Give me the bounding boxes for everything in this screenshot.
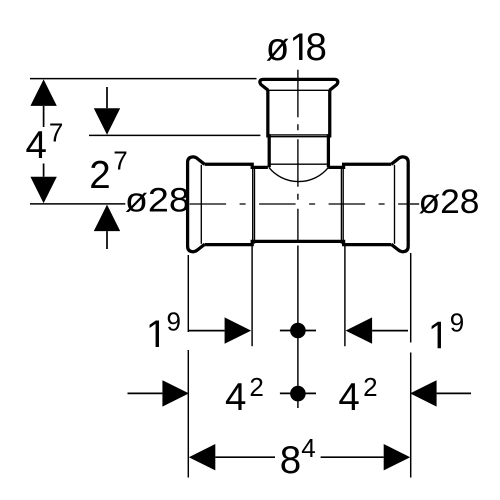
- svg-text:ø28: ø28: [125, 182, 190, 220]
- svg-text:ø: ø: [266, 26, 290, 69]
- dim 1.9 right tail: [372, 330, 408, 332]
- center reference dot 1: [290, 323, 306, 339]
- extension line bottom left-inner (socket end): [251, 246, 253, 346]
- branch socket end double line: [269, 135, 329, 137]
- svg-text:4: 4: [338, 376, 359, 419]
- vertical centerline (dash-dot): [297, 70, 299, 242]
- right socket end double line: [341, 168, 343, 244]
- left socket top outline with step: [205, 164, 268, 167]
- main pipe surface line seen through branch opening: [268, 163, 330, 165]
- dim 4.2 left tail: [128, 392, 163, 394]
- left socket end double line: [253, 168, 255, 244]
- dim 2.7 arrow tails: [106, 87, 108, 249]
- svg-text:7: 7: [49, 118, 63, 148]
- left socket bottom outline with step: [205, 241, 298, 244]
- dim 8.4 left tail: [215, 456, 275, 458]
- svg-text:ø28: ø28: [419, 183, 480, 221]
- right bead inner edge line: [394, 165, 396, 244]
- right socket bead (right ø28 press end): [391, 157, 408, 252]
- svg-text:9: 9: [450, 308, 464, 338]
- branch bore fillet arc: [269, 167, 329, 181]
- svg-text:4: 4: [26, 124, 47, 167]
- dot2 crosshair stub: [280, 392, 316, 394]
- right socket bottom outline with step: [298, 241, 391, 244]
- extension line center level (left): [30, 203, 125, 205]
- dim 4.2 right arrowhead: [410, 380, 437, 406]
- branch socket bead (top ø18 press end): [260, 79, 338, 90]
- dim 4.7 down arrowhead: [30, 177, 56, 204]
- dim 4.2 right tail: [437, 392, 471, 394]
- svg-text:7: 7: [113, 146, 127, 176]
- dim 8.4 right arrowhead: [384, 444, 411, 470]
- svg-text:4: 4: [301, 433, 315, 463]
- dim 4.7 up arrowhead: [30, 79, 56, 106]
- dim 1.9 right arrowhead: [346, 317, 373, 343]
- svg-text:2: 2: [363, 372, 377, 402]
- label 1 superscript 9 left (insertion depth): [150, 321, 159, 347]
- branch socket wall right: [328, 90, 329, 167]
- dim 1.9 left arrowhead: [225, 317, 252, 343]
- dim 8.4 left arrowhead: [189, 444, 216, 470]
- horizontal centerline right stub: [410, 203, 419, 205]
- dim 1.9 left tail: [189, 330, 225, 332]
- svg-text:8: 8: [306, 26, 327, 69]
- svg-text:2: 2: [249, 372, 263, 402]
- dim 4.2 left arrowhead: [162, 380, 189, 406]
- center reference dot 2: [290, 386, 306, 402]
- dim 4.7 arrow tails: [43, 106, 45, 177]
- extension line bottom right-inner (socket end): [344, 246, 346, 346]
- branch socket wall left: [268, 90, 269, 167]
- svg-text:2: 2: [89, 154, 110, 197]
- dot1 crosshair stub: [280, 330, 316, 332]
- branch bead inner edge line: [267, 89, 330, 91]
- horizontal centerline (dash-dot): [190, 203, 408, 205]
- svg-text:8: 8: [280, 439, 301, 482]
- extension line bottom left: [187, 255, 189, 478]
- dim 2.7 down arrowhead: [94, 108, 120, 135]
- extension line socket end level: [89, 134, 260, 136]
- dim 2.7 up arrowhead: [94, 205, 120, 232]
- center extension line below fitting: [297, 246, 299, 409]
- left socket bead (left ø28 press end): [188, 157, 205, 252]
- svg-text:4: 4: [225, 376, 246, 419]
- right socket top outline with step: [328, 164, 391, 167]
- label 1 superscript 9 right (insertion depth): [432, 322, 441, 348]
- svg-text:9: 9: [167, 307, 181, 337]
- dim 8.4 right tail: [321, 456, 384, 458]
- extension line bottom right: [410, 253, 412, 478]
- extension line top (branch top level): [30, 78, 257, 80]
- left bead inner edge line: [200, 165, 202, 244]
